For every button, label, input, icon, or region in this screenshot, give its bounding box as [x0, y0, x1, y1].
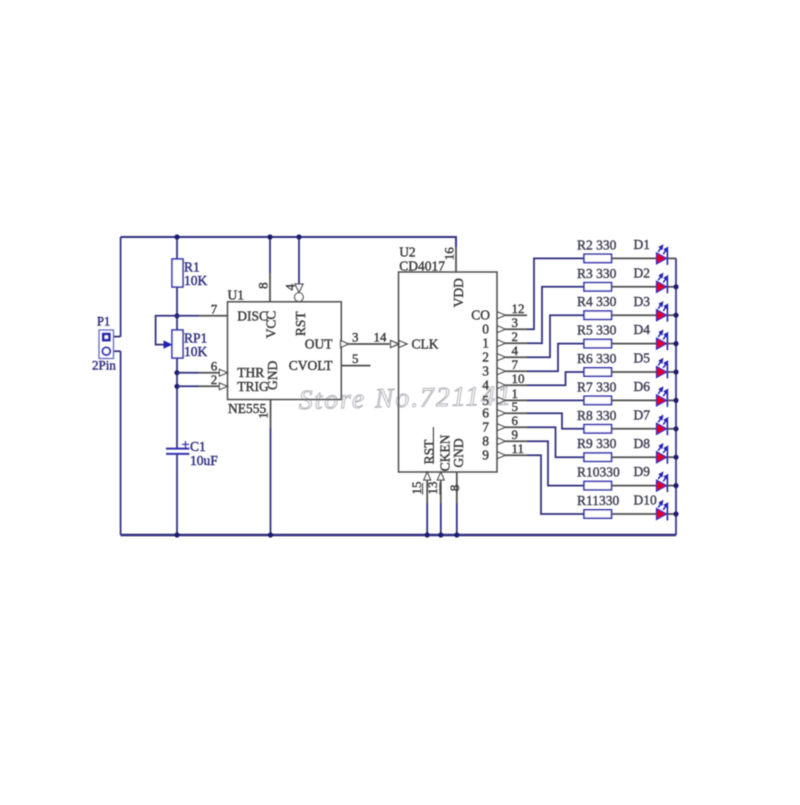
svg-text:D4: D4: [634, 322, 651, 337]
svg-text:10: 10: [512, 371, 525, 386]
svg-text:5: 5: [352, 351, 359, 366]
svg-text:OUT: OUT: [305, 337, 333, 352]
svg-text:2Pin: 2Pin: [92, 358, 116, 373]
svg-text:4: 4: [282, 283, 297, 290]
svg-text:1: 1: [256, 412, 271, 419]
svg-text:D10: D10: [634, 493, 657, 508]
svg-text:GND: GND: [265, 361, 280, 390]
svg-text:R7 330: R7 330: [577, 379, 617, 394]
svg-text:U1: U1: [228, 287, 245, 302]
svg-text:7: 7: [512, 357, 519, 372]
svg-text:VDD: VDD: [451, 278, 466, 307]
svg-text:Store No.721141: Store No.721141: [298, 380, 513, 415]
svg-text:D7: D7: [634, 407, 651, 422]
svg-text:8: 8: [447, 485, 462, 492]
svg-text:R10330: R10330: [577, 465, 620, 480]
svg-text:4: 4: [482, 378, 489, 393]
svg-text:6: 6: [482, 406, 489, 421]
svg-text:D6: D6: [634, 379, 651, 394]
svg-text:6: 6: [512, 413, 519, 428]
svg-text:R5 330: R5 330: [577, 323, 617, 338]
svg-text:13: 13: [425, 482, 440, 495]
svg-text:CVOLT: CVOLT: [289, 358, 334, 373]
svg-text:8: 8: [256, 282, 271, 289]
svg-text:10uF: 10uF: [190, 453, 218, 468]
svg-text:D3: D3: [634, 294, 651, 309]
svg-text:R6 330: R6 330: [577, 351, 617, 366]
svg-text:CO: CO: [471, 308, 490, 323]
svg-text:R4 330: R4 330: [577, 294, 617, 309]
svg-text:14: 14: [374, 329, 388, 344]
svg-text:2: 2: [211, 372, 218, 387]
svg-text:9: 9: [482, 448, 489, 463]
svg-text:D2: D2: [634, 265, 651, 280]
svg-text:16: 16: [441, 247, 456, 260]
svg-text:D5: D5: [634, 351, 651, 366]
svg-text:9: 9: [512, 427, 519, 442]
svg-text:10K: 10K: [184, 273, 208, 288]
svg-text:D8: D8: [634, 436, 651, 451]
svg-text:8: 8: [482, 434, 489, 449]
svg-text:CD4017: CD4017: [399, 259, 445, 274]
svg-text:R11330: R11330: [577, 493, 620, 508]
svg-text:U2: U2: [399, 245, 416, 260]
svg-text:3: 3: [512, 315, 519, 330]
svg-text:4: 4: [512, 343, 519, 358]
svg-text:D1: D1: [634, 237, 651, 252]
svg-text:3: 3: [482, 364, 489, 379]
svg-text:1: 1: [482, 336, 489, 351]
svg-text:12: 12: [512, 301, 525, 316]
svg-text:C1: C1: [190, 439, 206, 454]
svg-text:R3 330: R3 330: [577, 266, 617, 281]
svg-text:15: 15: [409, 482, 424, 495]
svg-text:2: 2: [482, 350, 489, 365]
svg-text:7: 7: [482, 420, 489, 435]
svg-text:DISC: DISC: [237, 308, 268, 323]
svg-text:0: 0: [482, 322, 489, 337]
svg-text:R8 330: R8 330: [577, 408, 617, 423]
svg-text:GND: GND: [451, 438, 466, 467]
svg-text:R9 330: R9 330: [577, 436, 617, 451]
svg-text:RST: RST: [422, 439, 437, 465]
svg-text:11: 11: [512, 441, 525, 456]
svg-text:10K: 10K: [184, 344, 208, 359]
svg-text:P1: P1: [97, 315, 110, 329]
svg-text:D9: D9: [634, 464, 651, 479]
svg-text:CLK: CLK: [412, 337, 439, 352]
svg-text:RST: RST: [293, 311, 308, 337]
svg-text:R2 330: R2 330: [577, 237, 617, 252]
svg-text:7: 7: [211, 302, 218, 317]
svg-text:3: 3: [352, 329, 359, 344]
svg-text:2: 2: [512, 329, 519, 344]
